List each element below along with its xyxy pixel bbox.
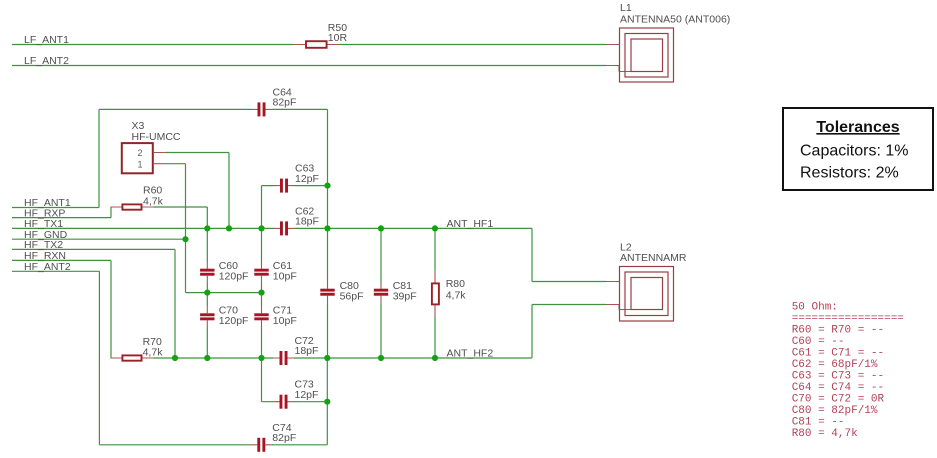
svg-text:Resistors: 2%: Resistors: 2% [800,165,899,182]
svg-text:120pF: 120pF [219,271,249,283]
svg-text:LF_ANT2: LF_ANT2 [24,55,69,67]
svg-text:L1: L1 [620,2,632,14]
svg-text:ANTENNA50 (ANT006): ANTENNA50 (ANT006) [620,14,730,26]
svg-text:39pF: 39pF [393,290,417,302]
svg-text:C62 = 68pF/1%: C62 = 68pF/1% [792,359,878,371]
svg-text:18pF: 18pF [295,345,319,357]
svg-text:R60 = R70 = --: R60 = R70 = -- [792,325,884,337]
svg-text:R80: R80 [446,278,465,290]
svg-text:R80 = 4,7k: R80 = 4,7k [792,428,858,440]
svg-text:C61 = C71 = --: C61 = C71 = -- [792,348,884,360]
svg-text:HF_ANT2: HF_ANT2 [24,261,71,273]
svg-text:ANT_HF2: ANT_HF2 [447,348,494,360]
svg-text:120pF: 120pF [219,315,249,327]
svg-text:1: 1 [138,159,143,169]
svg-text:4,7k: 4,7k [143,196,164,208]
svg-text:C80 = 82pF/1%: C80 = 82pF/1% [792,405,878,417]
svg-text:18pF: 18pF [295,216,319,228]
svg-text:Capacitors: 1%: Capacitors: 1% [800,143,909,160]
svg-text:10pF: 10pF [273,315,297,327]
svg-text:12pF: 12pF [295,389,319,401]
svg-text:=================: ================= [792,313,904,325]
svg-text:Tolerances: Tolerances [816,119,899,136]
svg-text:82pF: 82pF [273,97,297,109]
svg-text:C60 = --: C60 = -- [792,336,845,348]
svg-text:56pF: 56pF [340,290,364,302]
svg-text:4,7k: 4,7k [446,289,467,301]
svg-text:HF-UMCC: HF-UMCC [132,131,181,143]
svg-text:C64 = C74 = --: C64 = C74 = -- [792,382,884,394]
svg-text:C81 = --: C81 = -- [792,417,845,429]
svg-text:ANTENNAMR: ANTENNAMR [620,252,687,264]
svg-text:4,7k: 4,7k [143,347,164,359]
svg-text:C63 = C73 = --: C63 = C73 = -- [792,371,884,383]
svg-text:10pF: 10pF [273,271,297,283]
svg-text:C70 = C72 = 0R: C70 = C72 = 0R [792,394,885,406]
svg-text:LF_ANT1: LF_ANT1 [24,34,69,46]
svg-text:2: 2 [138,148,143,158]
svg-text:12pF: 12pF [295,173,319,185]
svg-text:82pF: 82pF [272,432,296,444]
svg-text:ANT_HF1: ANT_HF1 [447,218,494,230]
svg-text:10R: 10R [328,32,348,44]
svg-text:50 Ohm:: 50 Ohm: [792,302,838,314]
